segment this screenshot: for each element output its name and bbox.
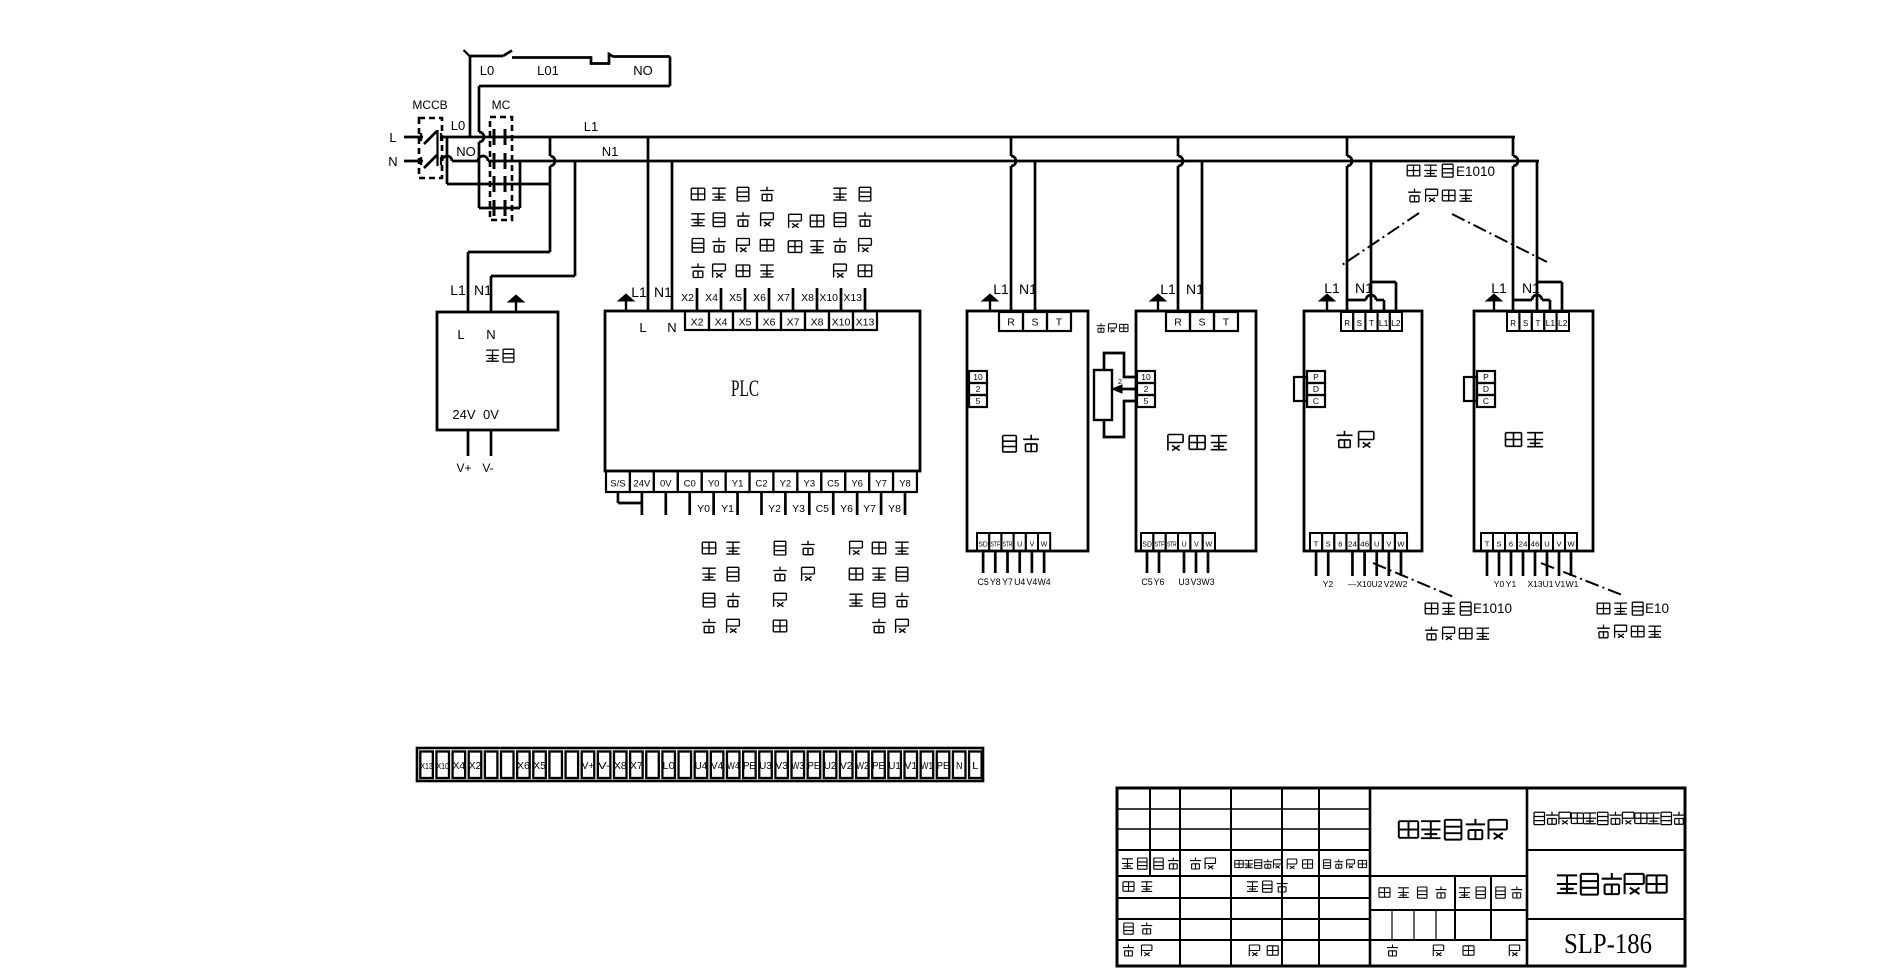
label 设计 <box>1123 882 1134 891</box>
servo1 terminal 46 <box>1359 533 1371 551</box>
svg-text:E1010: E1010 <box>1456 164 1495 179</box>
label 标准化 <box>1247 881 1258 891</box>
svg-text:6: 6 <box>1509 540 1513 549</box>
inverter2 输送带 label <box>1168 435 1183 451</box>
svg-text:X4: X4 <box>705 292 718 304</box>
svg-text:NO: NO <box>633 63 653 78</box>
svg-text:Y6: Y6 <box>840 503 853 515</box>
svg-text:24: 24 <box>1519 540 1528 549</box>
svg-text:W: W <box>1567 540 1575 549</box>
svg-text:V4: V4 <box>1027 577 1038 587</box>
svg-text:Y7: Y7 <box>863 503 876 515</box>
wire N1 drop to inverter2 S <box>1201 161 1204 312</box>
label 分区 <box>1190 858 1201 870</box>
inverter 落盘 box <box>967 311 1088 551</box>
svg-text:V: V <box>1030 542 1035 549</box>
svg-text:2: 2 <box>1144 384 1149 394</box>
servo2 terminal 24 <box>1517 533 1529 551</box>
wire input X7 stub <box>792 288 795 311</box>
strip terminal PE <box>872 752 885 779</box>
wire U3 <box>1183 551 1186 573</box>
wire servo1 pin S <box>1327 551 1330 576</box>
PLC terminal Y3 <box>797 471 821 492</box>
wire input X2 stub <box>696 288 699 311</box>
svg-text:S: S <box>1523 319 1528 328</box>
inverter2 terminal SD <box>1141 533 1153 551</box>
svg-text:Y6: Y6 <box>1154 577 1165 587</box>
svg-text:PE: PE <box>808 760 821 772</box>
label 工艺 <box>1123 945 1134 957</box>
svg-text:T: T <box>1223 316 1230 328</box>
svg-text:V2: V2 <box>1384 579 1395 589</box>
svg-text:24: 24 <box>1348 540 1357 549</box>
svg-text:W3: W3 <box>792 760 805 772</box>
inverter1 terminals R S T <box>999 312 1023 331</box>
svg-text:N: N <box>388 154 397 169</box>
wire Y7 <box>1006 551 1009 573</box>
label input col3 <box>737 187 749 201</box>
PLC terminal Y7 <box>869 471 893 492</box>
wire output stub Y1 <box>736 492 739 515</box>
svg-text:Y0: Y0 <box>1494 579 1505 589</box>
strip terminal X10 <box>436 752 449 779</box>
svg-text:5: 5 <box>1144 396 1149 406</box>
svg-text:Y6: Y6 <box>851 479 863 490</box>
servo1 terminal W <box>1395 533 1407 551</box>
svg-text:C5: C5 <box>816 503 830 515</box>
svg-text:V-: V- <box>598 760 611 772</box>
svg-text:U: U <box>1544 540 1549 549</box>
svg-text:X5: X5 <box>739 317 752 329</box>
servo1 terminal S <box>1353 312 1365 331</box>
svg-text:Y2: Y2 <box>1323 579 1334 589</box>
PLC box <box>605 311 920 471</box>
label 标记 <box>1122 858 1133 868</box>
title block horizontal lines <box>1117 808 1370 810</box>
svg-text:24V: 24V <box>452 407 475 422</box>
svg-text:PLC: PLC <box>731 376 759 401</box>
svg-text:D: D <box>1313 384 1319 394</box>
svg-text:W2: W2 <box>856 760 869 772</box>
potentiometer top connection <box>1104 353 1137 377</box>
svg-text:V: V <box>1194 542 1199 549</box>
label output col7 <box>895 542 908 555</box>
svg-text:Y1: Y1 <box>1506 579 1517 589</box>
svg-text:C2: C2 <box>755 479 767 490</box>
svg-text:S: S <box>1326 540 1331 549</box>
svg-text:U1: U1 <box>888 760 901 772</box>
svg-text:Y7: Y7 <box>875 479 887 490</box>
label 重量 <box>1459 887 1470 897</box>
wire N1 bus with hops <box>440 160 442 163</box>
svg-text:C0: C0 <box>684 479 696 490</box>
wire W4 <box>1043 551 1046 573</box>
svg-text:R: R <box>1174 316 1182 328</box>
PLC PE arrow <box>625 300 627 311</box>
svg-text:L01: L01 <box>537 63 559 78</box>
servo1 terminal L1 <box>1378 312 1390 331</box>
svg-text:V4: V4 <box>711 760 724 772</box>
svg-text:2: 2 <box>976 384 981 394</box>
servo1 移盘 label <box>1337 431 1353 448</box>
servo1 terminal 24 <box>1346 533 1358 551</box>
svg-text:X13: X13 <box>1527 579 1542 589</box>
svg-text:E10: E10 <box>1645 601 1669 616</box>
wire L1 drop to inverter2 R <box>1177 137 1180 156</box>
svg-text:STR: STR <box>1003 542 1013 549</box>
svg-text:L0: L0 <box>451 118 465 133</box>
servo2 terminal V <box>1553 533 1565 551</box>
wire servo2 pin T <box>1486 551 1489 576</box>
wire output stub C2 <box>760 492 763 515</box>
svg-text:U3: U3 <box>759 760 772 772</box>
annotation 针型端子 servo2 <box>1597 625 1610 638</box>
wire N1 drop to servo2 T <box>1536 161 1539 312</box>
svg-text:L1: L1 <box>584 119 598 134</box>
svg-text:U: U <box>1374 540 1379 549</box>
servo2 terminal L2 <box>1557 312 1569 331</box>
wire Y8 <box>994 551 997 573</box>
inverter2 PE arrow <box>1157 300 1159 311</box>
wire L1 tap to power supply <box>549 137 552 156</box>
strip terminal V2 <box>840 752 853 779</box>
svg-text:C: C <box>1483 396 1489 406</box>
svg-text:X8: X8 <box>801 292 814 304</box>
PLC terminal X5 <box>733 311 757 330</box>
svg-text:U: U <box>1017 542 1022 549</box>
svg-text:46: 46 <box>1531 540 1540 549</box>
svg-text:X5: X5 <box>729 292 742 304</box>
svg-text:X7: X7 <box>777 292 790 304</box>
label 更改文件号 <box>1235 860 1243 867</box>
wire L1 bus <box>440 136 1515 139</box>
svg-text:C5: C5 <box>1141 577 1152 587</box>
svg-text:10: 10 <box>973 372 983 382</box>
svg-text:R: R <box>1007 316 1015 328</box>
contactor MC dashed box <box>490 117 512 220</box>
svg-text:6: 6 <box>1338 540 1342 549</box>
servo2 terminal T <box>1481 533 1493 551</box>
potentiometer 电位器 label <box>1097 323 1105 332</box>
servo1 terminal U <box>1371 533 1383 551</box>
wire input X5 stub <box>744 288 747 311</box>
contactor MC contact row1 L <box>493 129 496 145</box>
wire servo2 pin U <box>1546 551 1549 576</box>
svg-text:C5: C5 <box>977 577 988 587</box>
svg-text:V3: V3 <box>775 760 788 772</box>
inverter2 terminal STF <box>1153 533 1165 551</box>
strip terminal X4 <box>453 752 466 779</box>
terminal strip outer <box>417 748 983 781</box>
svg-text:P: P <box>1313 372 1319 382</box>
svg-text:X6: X6 <box>763 317 776 329</box>
strip terminal X13 <box>420 752 433 779</box>
strip terminal V4 <box>711 752 724 779</box>
PLC terminal Y1 <box>726 471 750 492</box>
annotation 针型端子 top <box>1408 189 1421 202</box>
wire L1 drop to servo1 R <box>1346 137 1349 156</box>
wire output stub C0 <box>688 492 691 515</box>
PLC terminal X4 <box>709 311 733 330</box>
wire output stub Y3 <box>808 492 811 515</box>
annotation 针型端子 servo1 <box>1425 627 1438 640</box>
svg-text:L1: L1 <box>631 284 647 300</box>
strip terminal W3 <box>792 752 805 779</box>
strip terminal X5 <box>533 752 546 779</box>
svg-text:U: U <box>1182 542 1187 549</box>
svg-text:N: N <box>486 327 495 342</box>
svg-text:Y8: Y8 <box>899 479 911 490</box>
wire input X6 stub <box>768 288 771 311</box>
svg-text:X4: X4 <box>715 317 728 329</box>
svg-text:X8: X8 <box>614 760 627 772</box>
svg-text:R: R <box>1510 319 1516 328</box>
svg-text:T: T <box>1369 319 1374 328</box>
svg-text:PE: PE <box>743 760 756 772</box>
PLC terminal Y8 <box>893 471 917 492</box>
label input col7 <box>833 188 846 201</box>
power supply PE arrow <box>515 301 517 312</box>
potentiometer body <box>1094 370 1112 420</box>
title block outer frame <box>1117 788 1685 966</box>
svg-text:Y1: Y1 <box>721 503 734 515</box>
label 阶段标记 <box>1379 888 1390 897</box>
svg-text:N1: N1 <box>1355 280 1373 296</box>
strip terminal V+ <box>582 752 595 779</box>
svg-text:W1: W1 <box>921 760 934 772</box>
PLC terminal C0 <box>678 471 702 492</box>
servo1 terminal L2 <box>1390 312 1402 331</box>
wire servo2 pin V <box>1558 551 1561 576</box>
contactor MC contact row2 N <box>493 153 496 169</box>
svg-text:X13: X13 <box>843 292 862 304</box>
wire output stub 24V <box>641 492 644 515</box>
inverter1 analog terminals 10/2/5 <box>969 371 987 383</box>
servo2 terminal R <box>1507 312 1519 331</box>
product 自动排盘机 <box>1557 874 1577 893</box>
wire N input stub <box>404 160 423 163</box>
potentiometer bottom connection <box>1104 401 1137 437</box>
svg-text:L1: L1 <box>1160 281 1176 297</box>
PLC terminal Y2 <box>773 471 797 492</box>
servo2 PE arrow <box>1493 300 1495 311</box>
svg-text:X10: X10 <box>1356 579 1371 589</box>
label output col3 <box>774 541 786 555</box>
inverter1 落盘 label <box>1003 436 1017 452</box>
PLC terminal S/S <box>606 471 630 492</box>
power supply 电源 label <box>486 350 499 362</box>
svg-text:L2: L2 <box>1391 319 1401 328</box>
breaker MCCB crossing ticks <box>420 133 422 141</box>
servo2 排饼 label <box>1506 433 1522 447</box>
inverter1 PE arrow <box>989 300 991 311</box>
svg-text:U3: U3 <box>1178 577 1189 587</box>
strip terminal U3 <box>759 752 772 779</box>
wire output stub S/S <box>617 492 620 503</box>
svg-text:V2: V2 <box>840 760 853 772</box>
svg-text:L: L <box>639 320 646 335</box>
company 合肥三乐食品机械有限公司 <box>1534 812 1545 824</box>
svg-text:Y0: Y0 <box>708 479 720 490</box>
leader dash-dot servo1 E1010 note <box>1373 563 1456 598</box>
wire input X4 stub <box>720 288 723 311</box>
svg-text:Y2: Y2 <box>768 503 781 515</box>
label input col4 <box>760 187 773 201</box>
svg-text:U4: U4 <box>695 760 708 772</box>
wire servo1 pin 46 <box>1363 551 1366 576</box>
svg-text:SD: SD <box>1142 542 1152 549</box>
wire output stub C5 <box>832 492 835 515</box>
servo2 terminal L1 <box>1544 312 1556 331</box>
svg-text:S/S: S/S <box>610 479 625 490</box>
strip terminal X2 <box>469 752 482 779</box>
strip terminal U1 <box>888 752 901 779</box>
inverter2 terminals R S T <box>1166 312 1190 331</box>
breaker MCCB N pole <box>424 155 437 168</box>
wire servo2 T-L2 jumper <box>1537 281 1562 284</box>
servo2 terminal S <box>1493 533 1505 551</box>
svg-text:D: D <box>1483 384 1489 394</box>
wire servo1 pin W <box>1400 551 1403 576</box>
leader dash-dot servo2 E1010 note <box>1541 563 1622 595</box>
label output col1 <box>702 542 715 554</box>
strip terminal N <box>953 752 966 779</box>
strip terminal W4 <box>727 752 740 779</box>
annotation 此处用E10 servo2 <box>1597 603 1610 614</box>
wire servo2 R-L1 jumper <box>1513 299 1532 302</box>
strip terminal blank <box>679 752 692 779</box>
wire row3 parallel contact <box>446 137 449 184</box>
svg-text:PE: PE <box>937 760 950 772</box>
servo 移盘 box <box>1304 311 1422 551</box>
label 年月日 <box>1323 860 1330 869</box>
PLC terminal 0V <box>654 471 678 492</box>
label 签名 <box>1287 859 1297 869</box>
wire input X13 stub <box>864 288 867 311</box>
svg-text:N1: N1 <box>474 282 492 298</box>
inverter2 terminal STR <box>1166 533 1178 551</box>
wire L1 drop to inverter1 R <box>1010 137 1013 156</box>
strip terminal X6 <box>517 752 530 779</box>
strip terminal X7 <box>630 752 643 779</box>
svg-text:L1: L1 <box>1379 319 1389 328</box>
svg-text:X13: X13 <box>420 761 433 771</box>
wire output stub Y7 <box>880 492 883 515</box>
svg-text:S: S <box>1198 316 1205 328</box>
svg-text:V1: V1 <box>1555 579 1566 589</box>
wire servo1 pin T <box>1315 551 1318 576</box>
servo1 PE arrow <box>1326 300 1328 311</box>
svg-text:0V: 0V <box>483 407 499 422</box>
strip terminal PE <box>937 752 950 779</box>
svg-text:V3: V3 <box>1191 577 1202 587</box>
svg-text:X7: X7 <box>630 760 643 772</box>
strip terminal L0 <box>662 752 675 779</box>
strip terminal W1 <box>921 752 934 779</box>
wire L input stub <box>404 136 423 139</box>
inverter2 terminal W <box>1203 533 1215 551</box>
svg-text:24V: 24V <box>633 479 651 490</box>
strip terminal blank <box>549 752 562 779</box>
wire input X8 stub <box>816 288 819 311</box>
svg-text:X5: X5 <box>533 760 546 772</box>
inverter1 terminal U <box>1014 533 1026 551</box>
svg-text:X7: X7 <box>787 317 800 329</box>
svg-text:N: N <box>667 320 676 335</box>
power supply 电源 box <box>437 312 558 430</box>
inverter1 terminal STR <box>1001 533 1013 551</box>
label output col5 <box>850 541 863 554</box>
inverter1 terminal W <box>1038 533 1050 551</box>
annotation 此处用E1010 top <box>1407 165 1420 176</box>
strip terminal V3 <box>775 752 788 779</box>
svg-text:V1: V1 <box>905 760 918 772</box>
svg-text:X6: X6 <box>753 292 766 304</box>
wire servo1 R-L1 jumper <box>1347 299 1366 302</box>
svg-text:U2: U2 <box>1372 579 1383 589</box>
strip terminal blank <box>485 752 498 779</box>
svg-text:0V: 0V <box>660 479 672 490</box>
inverter 输送带 box <box>1136 311 1256 551</box>
label output col4 <box>801 541 814 555</box>
wire L1 drop to servo2 R <box>1512 137 1515 156</box>
svg-text:W3: W3 <box>1201 577 1214 587</box>
inverter2 terminal V <box>1190 533 1202 551</box>
svg-text:Y7: Y7 <box>1002 577 1013 587</box>
potentiometer wiper arrow <box>1117 388 1137 391</box>
svg-text:W: W <box>1041 542 1048 549</box>
wire C5 <box>982 551 985 573</box>
wire servo2 pin 46 <box>1534 551 1537 576</box>
strip terminal V1 <box>905 752 918 779</box>
wire N1 tap to power supply <box>574 161 577 276</box>
svg-text:W: W <box>1206 542 1213 549</box>
wire servo2 pin 6 <box>1510 551 1513 576</box>
label 比例 <box>1496 887 1505 898</box>
svg-text:L0: L0 <box>662 760 675 772</box>
svg-text:46: 46 <box>1360 540 1369 549</box>
servo2 terminal 6 <box>1505 533 1517 551</box>
servo 排饼 box <box>1474 311 1593 551</box>
wire row4 coil row <box>479 207 520 210</box>
strip terminal X8 <box>614 752 627 779</box>
svg-text:—: — <box>1348 579 1357 589</box>
svg-text:X10: X10 <box>832 317 851 329</box>
svg-text:E1010: E1010 <box>1473 601 1512 616</box>
svg-text:S: S <box>1031 316 1038 328</box>
wire U4 <box>1018 551 1021 573</box>
svg-text:L1: L1 <box>450 282 466 298</box>
wire V3 <box>1195 551 1198 573</box>
contactor MC contact row4 <box>493 200 496 216</box>
svg-text:Y8: Y8 <box>888 503 901 515</box>
breaker MCCB dashed box <box>419 118 442 178</box>
label 处数 <box>1154 858 1163 869</box>
wire control loop L0-L01-NO with switch and MC coil <box>470 55 503 58</box>
svg-text:W4: W4 <box>1037 577 1050 587</box>
wire servo2 pin 24 <box>1522 551 1525 576</box>
svg-text:MC: MC <box>492 98 511 112</box>
svg-text:L1: L1 <box>1546 319 1556 328</box>
wire output stub Y2 <box>784 492 787 515</box>
strip terminal blank <box>646 752 659 779</box>
svg-text:Y2: Y2 <box>780 479 792 490</box>
strip terminal PE <box>808 752 821 779</box>
inverter1 terminal V <box>1026 533 1038 551</box>
strip terminal blank <box>501 752 514 779</box>
svg-text:Y3: Y3 <box>804 479 816 490</box>
leader dash-dot left <box>1342 213 1419 265</box>
